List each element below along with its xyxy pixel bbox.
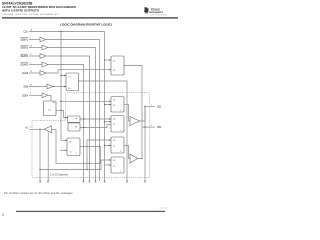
svg-text:CLK: CLK <box>24 32 29 34</box>
wire row7 to L1 <box>53 86 66 88</box>
overbar OEBA2 <box>21 45 29 47</box>
output buffer T2 <box>130 154 138 163</box>
input pin numbers <box>30 30 32 95</box>
svg-text:55: 55 <box>30 71 32 73</box>
wire row5 in <box>29 64 42 66</box>
svg-text:2: 2 <box>2 213 4 217</box>
latch box L2 <box>44 101 57 116</box>
wire CLK trunk down x104.5 <box>104 32 106 182</box>
wire CLK row <box>29 31 105 33</box>
gate box P2 <box>68 123 80 131</box>
svg-text:www.ti.com: www.ti.com <box>159 207 169 210</box>
wire trunk to box T <box>105 59 112 61</box>
wire row8 to L2 <box>48 95 51 101</box>
svg-text:6: 6 <box>151 125 152 127</box>
wire box T out down <box>124 66 142 159</box>
svg-text:28: 28 <box>30 30 32 32</box>
wire row4 vertical <box>46 56 90 181</box>
wire L2 out to P1 <box>56 110 68 117</box>
svg-text:OEBA2: OEBA2 <box>20 47 28 50</box>
svg-text:OEBA1: OEBA1 <box>20 39 28 42</box>
wire row7 in <box>29 86 47 88</box>
svg-text:LOGIC DIAGRAM (POSITIVE LOGIC): LOGIC DIAGRAM (POSITIVE LOGIC) <box>60 23 112 27</box>
svg-text:56: 56 <box>30 46 32 48</box>
svg-text:4: 4 <box>76 153 77 155</box>
svg-text:2: 2 <box>30 63 31 65</box>
gate box P1 <box>68 116 81 122</box>
input buffer row8 <box>42 93 48 98</box>
wire row8 in <box>29 94 42 96</box>
dashed channel outline <box>32 93 150 178</box>
wire B bus down <box>144 106 146 181</box>
wire M data stub <box>60 149 67 151</box>
svg-text:1D: 1D <box>113 70 116 72</box>
svg-text:5: 5 <box>120 130 121 132</box>
wire row4 in <box>29 55 40 57</box>
svg-text:1D: 1D <box>69 142 72 144</box>
svg-text:1D: 1D <box>113 119 116 121</box>
svg-text:1B1: 1B1 <box>157 105 162 108</box>
svg-text:1: 1 <box>30 38 31 40</box>
wire CLK branch down x61 <box>60 32 62 141</box>
svg-text:27: 27 <box>30 54 32 56</box>
svg-text:1D: 1D <box>113 160 116 162</box>
wire row6 in <box>29 72 40 74</box>
input buffer row4 <box>40 54 46 59</box>
svg-text:1D: 1D <box>68 88 71 90</box>
wire A tap down <box>39 129 41 181</box>
svg-text:4: 4 <box>30 127 31 129</box>
pin ticks below dashed box <box>40 181 146 183</box>
wire L1 clock stub <box>61 75 66 77</box>
wire row5 vertical <box>48 65 84 182</box>
register box R4 <box>111 157 124 173</box>
svg-text:1 of 12 Channels: 1 of 12 Channels <box>50 174 69 177</box>
wire to R1 data <box>61 100 111 102</box>
overbar OEBA1 <box>21 37 29 39</box>
input buffer row6 <box>40 71 46 76</box>
wire R3 out to T2 <box>124 146 130 159</box>
svg-text:OEAB1: OEAB1 <box>20 55 28 58</box>
wire row6 to box M <box>46 70 111 73</box>
wire row2 out down <box>46 40 100 182</box>
latch box T <box>111 56 124 75</box>
input buffer row5 <box>42 62 48 67</box>
wire M out to driver path <box>52 129 101 163</box>
wire row3 vertical <box>48 48 96 182</box>
register box R3 <box>111 137 124 153</box>
svg-text:LEAB: LEAB <box>22 72 28 75</box>
overbar OEAB1 <box>21 53 29 55</box>
footer rule <box>16 211 165 212</box>
svg-text:2B1: 2B1 <box>157 126 162 129</box>
wire A data bus <box>40 160 111 170</box>
svg-text:8: 8 <box>120 110 121 112</box>
wire T2 out to 2B1 <box>138 158 143 160</box>
svg-text:1D: 1D <box>113 100 116 102</box>
TI logo map glyph <box>144 7 149 14</box>
svg-text:OEAB2: OEAB2 <box>20 64 28 67</box>
tiny interior marks <box>53 102 77 127</box>
box input arrows <box>64 59 111 165</box>
wire 2B1 pin <box>142 126 155 128</box>
svg-text:INSTRUMENTS: INSTRUMENTS <box>149 12 163 14</box>
svg-text:SCBS669A – APRIL 1996 – REVISE: SCBS669A – APRIL 1996 – REVISED SEPTEMBE… <box>2 13 59 16</box>
input buffer row2 <box>40 37 46 42</box>
output buffer T1 <box>130 117 140 126</box>
register box M <box>67 138 80 156</box>
svg-text:POST OFFICE BOX 655303: POST OFFICE BOX 655303 <box>151 14 168 16</box>
overbar OEAB2 <box>21 62 29 64</box>
wire L1 out to x127 <box>79 81 128 181</box>
wire P2 out to R2 <box>80 125 111 128</box>
junction dots <box>39 31 145 170</box>
wire CLK stub R3 <box>105 145 112 147</box>
header rule <box>2 17 178 18</box>
svg-text:SAB: SAB <box>23 86 28 89</box>
wire CLK stub R4 <box>105 164 112 166</box>
svg-text:1D: 1D <box>48 110 51 112</box>
wire driver enable <box>47 133 49 182</box>
svg-text:5: 5 <box>151 104 152 106</box>
wire row2 OEBA in <box>29 39 40 41</box>
svg-text:9: 9 <box>120 151 121 153</box>
svg-text:WITH 3-STATE OUTPUTS: WITH 3-STATE OUTPUTS <box>2 9 39 13</box>
svg-text:1D: 1D <box>113 140 116 142</box>
wire R1 out to T1 <box>124 104 130 121</box>
input buffer row7 <box>47 84 53 89</box>
latch box L1 <box>66 73 79 91</box>
wire M clock stub <box>61 139 67 141</box>
wire row3 in <box>29 47 42 49</box>
svg-text:Pin numbers shown are for the: Pin numbers shown are for the DGG and DL… <box>4 191 74 195</box>
register box R2 <box>111 116 124 133</box>
wire T1 out to 1B1 <box>140 106 156 121</box>
wire CLK stub R2 <box>105 121 112 123</box>
svg-text:TEXAS: TEXAS <box>151 8 160 12</box>
svg-text:26: 26 <box>30 85 32 87</box>
wire P1 out to R2 <box>80 118 111 120</box>
wire CLK stub R1 <box>105 104 112 106</box>
A port driver <box>44 126 52 133</box>
input buffer row3 <box>42 45 48 50</box>
register box R1 <box>111 97 124 113</box>
svg-text:LEBA: LEBA <box>22 94 28 97</box>
wire A pin to driver <box>29 128 44 130</box>
wire A data to R3 <box>87 140 111 170</box>
svg-text:6: 6 <box>120 171 121 173</box>
svg-text:3: 3 <box>30 93 31 95</box>
